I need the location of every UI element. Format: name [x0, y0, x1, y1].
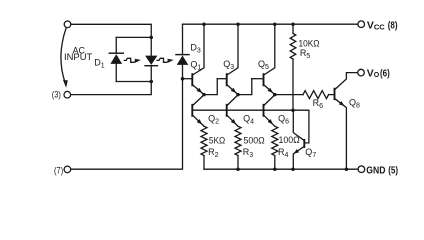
svg-text:(5): (5): [388, 165, 398, 176]
svg-text:(6): (6): [380, 68, 390, 79]
svg-text:VCC: VCC: [367, 21, 385, 32]
svg-text:INPUT: INPUT: [64, 52, 93, 62]
svg-text:(7): (7): [54, 165, 63, 175]
svg-text:(8): (8): [388, 21, 398, 32]
svg-text:500Ω: 500Ω: [244, 135, 265, 145]
svg-text:5KΩ: 5KΩ: [209, 135, 226, 145]
svg-text:10KΩ: 10KΩ: [299, 38, 320, 48]
svg-text:(3): (3): [52, 90, 61, 100]
svg-text:100Ω: 100Ω: [279, 135, 300, 145]
svg-text:GND: GND: [366, 165, 386, 176]
